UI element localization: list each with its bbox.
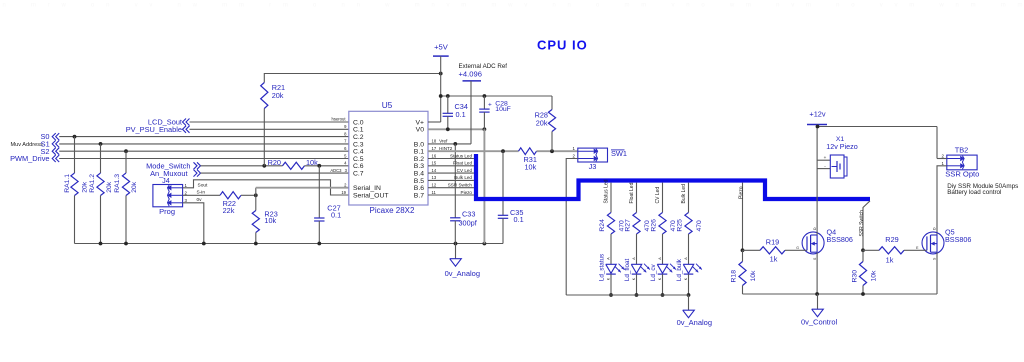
svg-text:C.4: C.4 <box>353 149 364 156</box>
wire CV Led drop <box>655 183 662 213</box>
svg-text:PWM_Drive: PWM_Drive <box>10 154 49 163</box>
port S2 <box>40 147 59 156</box>
svg-text:S-in: S-in <box>197 189 206 195</box>
svg-text:+12v: +12v <box>809 110 826 119</box>
chip U5 left pin numbers <box>330 117 347 195</box>
connector J3 SW1 <box>573 146 627 171</box>
svg-text:K: K <box>684 277 688 280</box>
svg-text:PV_PSU_Enable: PV_PSU_Enable <box>126 125 182 134</box>
wire PV_PSU_Enable <box>190 128 349 130</box>
svg-text:ADC3: ADC3 <box>330 168 342 173</box>
wire B.1 HINT2 (gray) <box>428 146 519 153</box>
svg-text:B.1: B.1 <box>414 149 424 156</box>
wire +5V rail <box>439 94 552 98</box>
label Mux Address <box>10 142 43 148</box>
svg-text:R20: R20 <box>268 158 281 167</box>
LED Ld_bulk <box>676 234 702 297</box>
svg-text:HINT2: HINT2 <box>439 146 453 151</box>
op-chip U5 Picaxe 28X2 body <box>349 100 428 215</box>
pin labels J4 <box>185 182 209 203</box>
svg-text:B.5: B.5 <box>414 178 424 185</box>
wire S1 (gray) <box>59 142 349 146</box>
svg-text:13: 13 <box>432 175 437 180</box>
svg-text:2: 2 <box>573 154 576 159</box>
svg-text:CV Led: CV Led <box>457 168 473 173</box>
label SSR module note <box>947 183 1018 196</box>
svg-text:2: 2 <box>185 190 188 195</box>
svg-text:K: K <box>606 277 610 280</box>
svg-text:BSS806: BSS806 <box>945 235 971 244</box>
svg-text:10k: 10k <box>750 270 757 282</box>
wires B.2-B.7 pin stubs with net labels <box>428 153 474 195</box>
resistor R27 470 <box>625 213 652 235</box>
wire TB2 pin1 to Q5 drain <box>937 166 947 235</box>
svg-text:1k: 1k <box>770 254 778 263</box>
svg-text:Status Led: Status Led <box>450 153 472 158</box>
svg-text:A: A <box>632 257 636 260</box>
wire Q5 source to ground <box>936 252 938 294</box>
svg-text:Float Led: Float Led <box>629 182 635 203</box>
svg-text:Ld_float: Ld_float <box>624 258 631 281</box>
svg-text:Vref: Vref <box>439 139 448 144</box>
resistor RA1.3 20k <box>114 151 138 243</box>
port S1 <box>41 140 60 149</box>
resistor RA1.2 20k <box>89 144 113 244</box>
resistor R24 470 <box>599 213 626 235</box>
wire J4 pin2 to R22 <box>183 194 220 196</box>
svg-text:Picaxe 28X2: Picaxe 28X2 <box>370 206 415 215</box>
svg-text:Serial_OUT: Serial_OUT <box>353 192 389 199</box>
svg-text:SSR Switch: SSR Switch <box>859 210 865 237</box>
resistor R20 10k <box>268 158 349 170</box>
svg-text:B.3: B.3 <box>414 163 424 170</box>
chip U5 pin names <box>353 119 424 199</box>
wire LCD_Sout <box>190 121 349 123</box>
svg-text:3: 3 <box>185 198 188 203</box>
svg-text:U5: U5 <box>382 100 393 110</box>
svg-text:K: K <box>632 277 636 280</box>
resistor R25 470 <box>677 213 704 235</box>
svg-text:RA1.1: RA1.1 <box>64 174 71 193</box>
svg-text:RA1.3: RA1.3 <box>114 174 121 193</box>
wire S2 <box>59 149 349 153</box>
svg-text:12v Piezo: 12v Piezo <box>826 142 858 151</box>
port LCD_Sout <box>148 118 190 127</box>
wire An_Muxout <box>201 172 349 174</box>
svg-text:Ld_status: Ld_status <box>598 254 605 281</box>
svg-text:Piezo: Piezo <box>739 186 745 199</box>
svg-text:V+: V+ <box>415 119 424 126</box>
piezo X1 12v Piezo <box>818 136 858 178</box>
svg-text:0v_Control: 0v_Control <box>801 318 838 327</box>
resistor R23 10k <box>252 195 278 243</box>
svg-text:0.1: 0.1 <box>456 110 466 119</box>
svg-text:10k: 10k <box>306 158 318 167</box>
wire V0 pin (gray) <box>428 127 486 131</box>
svg-text:18: 18 <box>432 139 437 144</box>
wire S0 <box>59 135 349 139</box>
svg-text:20k: 20k <box>131 181 138 193</box>
title CPU IO <box>537 38 588 53</box>
svg-text:1: 1 <box>185 183 188 188</box>
resistor R30 10k <box>851 250 877 294</box>
connector J4 Prog <box>153 176 183 216</box>
svg-text:20k: 20k <box>82 181 89 193</box>
bus (highlighted) thick blue <box>476 154 870 199</box>
svg-text:CV Led: CV Led <box>655 187 661 204</box>
svg-text:4: 4 <box>344 161 347 166</box>
wire node to Serial_IN (gray) <box>256 188 349 196</box>
resistor R21 20k <box>261 83 285 166</box>
svg-text:C.3: C.3 <box>353 141 364 148</box>
svg-text:+5V: +5V <box>434 43 449 52</box>
svg-text:R18: R18 <box>731 270 738 283</box>
svg-text:CPU IO: CPU IO <box>537 38 588 53</box>
svg-text:Battery load control: Battery load control <box>947 189 1001 196</box>
svg-text:11: 11 <box>432 190 437 195</box>
wire V+ pin <box>428 121 441 123</box>
wire Float Led drop <box>629 182 636 212</box>
resistor R18 10k <box>731 250 757 294</box>
svg-text:Prog: Prog <box>159 207 175 216</box>
svg-text:Ld_bulk: Ld_bulk <box>676 258 683 281</box>
wire SSR Switch drop <box>859 201 870 252</box>
svg-text:C.2: C.2 <box>353 134 364 141</box>
svg-text:10uF: 10uF <box>495 106 511 113</box>
connector TB2 SSR Opto <box>942 146 980 179</box>
svg-text:S: S <box>813 257 817 260</box>
resistor R31 10k <box>519 148 578 172</box>
wire PWM_Drive <box>59 158 349 160</box>
svg-text:R27: R27 <box>625 219 632 232</box>
ground 0v_Analog left <box>445 244 480 279</box>
svg-text:G: G <box>796 246 799 250</box>
svg-text:hserout: hserout <box>332 117 347 122</box>
LED Ld_cv <box>650 234 676 297</box>
svg-text:B.0: B.0 <box>414 141 424 148</box>
svg-text:B.4: B.4 <box>414 171 424 178</box>
wire J4 pin3 to ground <box>183 203 204 244</box>
svg-text:Sout: Sout <box>198 182 209 188</box>
svg-text:V0: V0 <box>416 127 425 134</box>
svg-text:19: 19 <box>341 190 346 195</box>
svg-text:A: A <box>606 257 610 260</box>
svg-text:R24: R24 <box>599 219 606 232</box>
transistor Q5 BSS806 <box>912 227 971 260</box>
svg-text:R19: R19 <box>766 238 779 247</box>
svg-text:10k: 10k <box>264 216 276 225</box>
svg-text:3: 3 <box>345 168 348 173</box>
svg-text:+: + <box>824 155 827 160</box>
svg-text:SSR Switch: SSR Switch <box>448 183 473 188</box>
wire Mode_Switch <box>201 164 283 168</box>
wire analog ground bus <box>75 242 504 246</box>
svg-text:12: 12 <box>432 183 437 188</box>
resistor R29 1k <box>863 235 912 265</box>
port PWM_Drive <box>10 154 59 163</box>
svg-text:R26: R26 <box>651 219 658 232</box>
svg-text:C33: C33 <box>462 210 475 219</box>
svg-text:D: D <box>933 227 937 230</box>
capacitor C27 0.1 <box>314 166 341 244</box>
svg-text:17: 17 <box>432 146 437 151</box>
svg-text:B.7: B.7 <box>414 192 424 199</box>
svg-text:470: 470 <box>696 220 703 232</box>
svg-text:-: - <box>824 164 826 169</box>
svg-text:n mrw on vv nw mm rm o nn w mn: n mrw on vv nw mm rm o nn w mnvm mwv nn … <box>3 3 1023 9</box>
svg-text:300pf: 300pf <box>459 218 478 227</box>
LED Ld_status <box>598 234 624 297</box>
ground 0v_Analog right <box>677 295 712 327</box>
capacitor C28 10uF <box>479 96 511 129</box>
svg-text:Muv Address: Muv Address <box>10 142 43 148</box>
capacitor C35 0.1 <box>498 151 524 243</box>
wire control ground bus <box>743 292 938 296</box>
svg-text:22k: 22k <box>223 206 235 215</box>
svg-text:J4: J4 <box>162 176 170 185</box>
resistor R28 20k <box>535 96 556 151</box>
svg-text:Bulk Led: Bulk Led <box>454 175 472 180</box>
svg-text:S: S <box>933 257 937 260</box>
svg-text:A: A <box>684 257 688 260</box>
svg-text:1: 1 <box>942 161 945 166</box>
svg-text:TB2: TB2 <box>955 146 969 155</box>
svg-text:Status Led: Status Led <box>604 179 610 203</box>
wire +12V rail <box>816 125 937 159</box>
svg-text:J3: J3 <box>589 162 597 171</box>
svg-text:D: D <box>813 227 817 230</box>
ground 0v_Control <box>801 294 838 327</box>
svg-text:Bulk Led: Bulk Led <box>681 184 687 204</box>
svg-text:0v_Analog: 0v_Analog <box>677 318 712 327</box>
resistor RA1.1 20k <box>64 137 89 244</box>
svg-text:Serial_IN: Serial_IN <box>353 185 381 192</box>
resistor R26 470 <box>651 213 678 235</box>
wire +5V to R21 <box>264 72 442 83</box>
wire Status Led drop <box>604 179 611 212</box>
svg-text:20k: 20k <box>106 181 113 193</box>
capacitor C34 0.1 <box>443 96 468 129</box>
svg-text:Float Led: Float Led <box>453 161 473 166</box>
svg-text:SSR Opto: SSR Opto <box>945 170 979 179</box>
port An_Muxout <box>150 169 200 178</box>
port S0 <box>40 132 59 141</box>
svg-text:5: 5 <box>344 153 347 158</box>
svg-text:C.6: C.6 <box>353 163 364 170</box>
svg-text:9: 9 <box>344 124 347 129</box>
wire J4 pin1 to Serial_OUT <box>183 180 349 195</box>
svg-text:16: 16 <box>432 153 437 158</box>
svg-text:8: 8 <box>344 131 347 136</box>
wire V0 to ground (gray) <box>483 129 485 243</box>
svg-text:C.7: C.7 <box>353 171 364 178</box>
svg-text:14: 14 <box>432 168 437 173</box>
svg-text:K: K <box>658 277 662 280</box>
svg-text:SW1: SW1 <box>611 149 627 158</box>
svg-text:RA1.2: RA1.2 <box>89 174 96 193</box>
wire LED ground bus <box>566 294 688 296</box>
svg-text:+4.096: +4.096 <box>459 70 482 79</box>
port Mode_Switch <box>146 162 200 171</box>
wire Bulk Led drop <box>681 183 688 213</box>
svg-text:0.1: 0.1 <box>331 211 341 220</box>
svg-text:20k: 20k <box>272 91 284 100</box>
svg-text:15: 15 <box>432 161 437 166</box>
svg-text:0v_Analog: 0v_Analog <box>445 269 480 278</box>
svg-text:C.0: C.0 <box>353 119 364 126</box>
svg-text:BSS806: BSS806 <box>827 235 853 244</box>
svg-text:R25: R25 <box>677 219 684 232</box>
svg-text:R29: R29 <box>885 235 898 244</box>
LED Ld_float <box>624 234 650 297</box>
svg-text:B.2: B.2 <box>414 156 424 163</box>
transistor Q4 BSS806 <box>796 227 853 260</box>
capacitor C33 300pf <box>450 144 478 244</box>
power +12V <box>807 110 827 127</box>
svg-text:0.1: 0.1 <box>514 215 524 224</box>
svg-text:+: + <box>488 102 492 109</box>
svg-text:Ld_cv: Ld_cv <box>650 263 657 281</box>
wire J3 pin2 to ground <box>566 159 578 296</box>
svg-text:C.1: C.1 <box>353 127 364 134</box>
wire B.0 Vref <box>428 139 471 146</box>
svg-text:E: E <box>916 246 919 250</box>
svg-text:Piezo: Piezo <box>461 190 473 195</box>
svg-text:20k: 20k <box>536 118 548 127</box>
wire Q4 drain to X1 <box>816 127 818 236</box>
wire TB2 pin2 stub <box>937 158 947 160</box>
svg-text:10k: 10k <box>870 270 877 282</box>
svg-text:B.6: B.6 <box>414 185 424 192</box>
svg-text:0v: 0v <box>197 197 203 203</box>
svg-text:A: A <box>658 257 662 260</box>
svg-text:1k: 1k <box>886 256 894 265</box>
wire Piezo drop <box>739 183 745 253</box>
power +5V <box>433 43 449 123</box>
svg-text:2: 2 <box>942 154 945 159</box>
svg-text:6: 6 <box>344 146 347 151</box>
wire Q4 source to ground <box>816 252 818 294</box>
svg-text:10k: 10k <box>525 162 537 171</box>
svg-text:R30: R30 <box>851 270 858 283</box>
port PV_PSU_Enable <box>126 125 190 134</box>
resistor R19 1k <box>743 238 800 264</box>
svg-text:C.5: C.5 <box>353 156 364 163</box>
resistor R22 22k <box>220 192 258 215</box>
power External ADC Ref +4.096 <box>459 63 508 144</box>
